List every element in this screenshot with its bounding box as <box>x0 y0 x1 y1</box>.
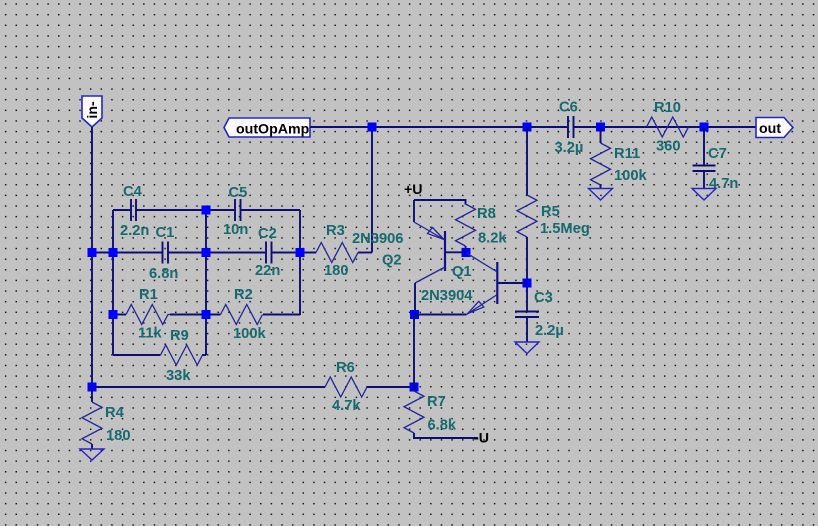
svg-text:C2: C2 <box>258 226 277 242</box>
resistor R1 <box>126 287 170 342</box>
node junction 414,314 <box>410 310 419 319</box>
svg-text:180: 180 <box>106 428 131 444</box>
svg-text:C6: C6 <box>559 100 578 116</box>
svg-text:C7: C7 <box>708 146 727 162</box>
svg-text:R10: R10 <box>654 100 681 116</box>
svg-text:8.2k: 8.2k <box>478 231 507 247</box>
wire top rail <box>113 209 300 211</box>
capacitor C1 <box>149 225 178 282</box>
capacitor C7 <box>693 127 739 192</box>
capacitor C4 <box>120 184 149 239</box>
svg-text:out: out <box>759 121 781 137</box>
svg-text:C4: C4 <box>123 184 143 200</box>
wire +U rail <box>414 200 466 222</box>
transistor Q2 2N3906 <box>352 222 466 315</box>
node junction 113,252 <box>109 248 118 257</box>
svg-text:-U: -U <box>474 431 489 447</box>
svg-text:2.2µ: 2.2µ <box>535 323 564 339</box>
wire to -U <box>414 433 478 438</box>
svg-text:22n: 22n <box>255 263 280 279</box>
wire left column x=113 <box>112 210 114 355</box>
port out <box>756 118 793 138</box>
ground R4 <box>80 449 104 460</box>
svg-text:6.8k: 6.8k <box>428 418 457 434</box>
svg-text:2N3904: 2N3904 <box>421 288 473 304</box>
wire Q2 node down <box>413 315 415 388</box>
svg-text:R2: R2 <box>234 287 253 303</box>
node junction 372,127 <box>368 123 377 132</box>
svg-text:6.8n: 6.8n <box>149 266 178 282</box>
wire mid column x=206 <box>205 210 207 355</box>
svg-text:R3: R3 <box>326 223 345 239</box>
wire Q2 collector to Q1 emitter <box>414 314 467 316</box>
svg-text:R8: R8 <box>477 206 496 222</box>
svg-text:2.2n: 2.2n <box>120 223 149 239</box>
svg-text:Q1: Q1 <box>452 264 472 280</box>
node junction 527,127 <box>523 123 532 132</box>
resistor R4 <box>82 387 131 449</box>
svg-text:C3: C3 <box>534 290 553 306</box>
ground R11 <box>589 189 613 201</box>
svg-text:11k: 11k <box>138 326 163 342</box>
node junction 300,252 <box>296 248 305 257</box>
node junction 206,210 <box>202 206 211 215</box>
svg-text:R6: R6 <box>336 360 355 376</box>
svg-text:360: 360 <box>656 139 681 155</box>
svg-text:33k: 33k <box>166 368 191 384</box>
wire R1 R2 row <box>113 314 300 316</box>
wire main horizontal rail <box>310 126 756 128</box>
resistor R8 <box>456 199 508 253</box>
svg-text:R5: R5 <box>541 204 560 220</box>
node junction 206,252 <box>202 248 211 257</box>
svg-text:4.7k: 4.7k <box>332 398 361 414</box>
resistor R3 <box>316 223 358 279</box>
svg-text:R1: R1 <box>139 287 158 303</box>
svg-text:4.7n: 4.7n <box>709 176 738 192</box>
capacitor C6 <box>555 100 584 157</box>
svg-text:180: 180 <box>324 263 349 279</box>
resistor R7 <box>404 387 457 434</box>
svg-text:outOpAmp: outOpAmp <box>236 122 310 138</box>
resistor R2 <box>221 287 267 342</box>
svg-text:100k: 100k <box>233 326 267 342</box>
svg-text:R4: R4 <box>105 405 125 421</box>
svg-text:R7: R7 <box>427 394 446 410</box>
port outOpAmp <box>224 118 310 138</box>
wire outOpAmp drop <box>371 127 373 253</box>
ground C3 <box>515 342 539 354</box>
svg-text:100k: 100k <box>614 168 648 184</box>
capacitor C5 <box>223 185 248 238</box>
svg-text:C1: C1 <box>156 225 175 241</box>
resistor R9 <box>161 328 203 384</box>
svg-text:in-: in- <box>85 101 101 119</box>
node junction 92,252 <box>88 248 97 257</box>
svg-text:R9: R9 <box>170 328 189 344</box>
wire right column x=300 <box>299 210 301 315</box>
capacitor C3 <box>515 290 564 342</box>
node junction 414,387 <box>410 383 419 392</box>
svg-text:3.2µ: 3.2µ <box>555 140 584 156</box>
svg-text:R11: R11 <box>614 146 640 162</box>
resistor R6 <box>325 360 367 414</box>
svg-text:C5: C5 <box>229 185 248 201</box>
resistor R5 <box>517 127 590 311</box>
port in- <box>82 96 102 127</box>
wire in- vertical <box>91 127 93 387</box>
svg-text:1.5Meg: 1.5Meg <box>540 221 590 237</box>
node junction 527,283 <box>523 279 532 288</box>
node junction 92,387 <box>88 383 97 392</box>
node junction 466,252 <box>462 248 471 257</box>
ground C7 <box>692 189 716 201</box>
capacitor C2 <box>255 226 280 279</box>
wire bottom rail <box>92 386 414 388</box>
wire middle rail <box>92 252 372 254</box>
transistor Q1 2N3904 <box>421 253 527 315</box>
node junction 600,127 <box>596 123 605 132</box>
node junction 206,314 <box>202 310 211 319</box>
resistor R11 <box>591 127 648 189</box>
node junction 704,127 <box>700 123 709 132</box>
svg-text:Q2: Q2 <box>382 253 402 269</box>
svg-text:+U: +U <box>404 182 423 198</box>
wire R9 row <box>113 354 206 356</box>
svg-text:10n: 10n <box>223 222 248 238</box>
resistor R10 <box>647 100 689 155</box>
node junction 113,314 <box>109 310 118 319</box>
svg-text:2N3906: 2N3906 <box>352 231 403 247</box>
